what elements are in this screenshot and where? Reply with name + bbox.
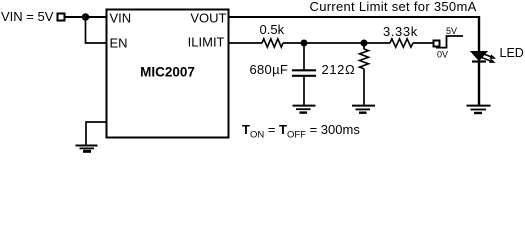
ground (IC): [76, 146, 98, 152]
svg-text:VIN: VIN: [110, 11, 132, 26]
LED D1: [471, 52, 487, 106]
junction dot resistor node: [361, 40, 368, 47]
IC U1 MIC2007 body: [107, 10, 229, 138]
resistor R2 212ohm: [360, 43, 369, 105]
wire VOUT down to LED: [478, 16, 480, 52]
pulse waveform symbol: [436, 36, 463, 48]
wire VOUT to LED: [230, 16, 481, 18]
resistor R3 3.33k: [390, 39, 413, 47]
ground (R2): [352, 106, 375, 113]
svg-text:LED: LED: [500, 46, 524, 60]
svg-text:MIC2007: MIC2007: [140, 65, 195, 80]
junction dot VIN/EN: [82, 13, 90, 21]
wire IC GND stub: [86, 122, 107, 145]
junction dot capacitor node: [301, 40, 308, 47]
svg-text:0V: 0V: [437, 50, 448, 60]
wire ILIMIT to R1: [230, 42, 263, 44]
ground (LED): [467, 106, 491, 113]
LED light arrows: [481, 53, 495, 62]
svg-text:VIN = 5V: VIN = 5V: [1, 9, 54, 24]
wire VIN input to IC: [66, 16, 108, 18]
svg-text:680µF: 680µF: [250, 62, 289, 77]
capacitor C1 680uF: [292, 43, 316, 105]
terminal square (pulse source): [434, 41, 440, 47]
wire junction to EN pin: [86, 17, 107, 43]
svg-text:ILIMIT: ILIMIT: [188, 35, 225, 50]
resistor R1 0.5k: [262, 39, 283, 47]
input terminal square: [58, 14, 65, 21]
svg-text:Current Limit set for 350mA: Current Limit set for 350mA: [310, 0, 477, 14]
svg-text:VOUT: VOUT: [190, 11, 226, 26]
ground (C1): [293, 106, 316, 113]
svg-text:0.5k: 0.5k: [260, 22, 285, 37]
wire R1 to R3: [283, 42, 390, 44]
svg-text:3.33k: 3.33k: [383, 24, 418, 39]
svg-text:EN: EN: [110, 36, 128, 51]
svg-text:5V: 5V: [446, 26, 457, 36]
wire R3 to EN source terminal: [413, 42, 433, 44]
svg-text:212Ω: 212Ω: [322, 62, 356, 77]
